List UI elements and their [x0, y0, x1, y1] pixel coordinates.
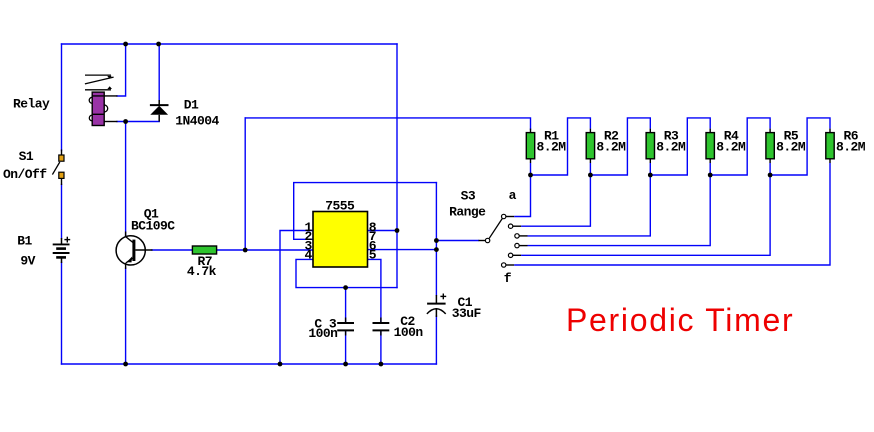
switch S1 [52, 150, 64, 186]
svg-text:33uF: 33uF [452, 306, 482, 321]
relay contact armature [85, 77, 114, 84]
svg-text:f: f [504, 271, 512, 286]
switch S3 pole [479, 219, 503, 243]
switch S3 contact d [515, 175, 710, 248]
wire C3 bottom to ground [345, 331, 347, 364]
node Q1 emitter on ground [123, 362, 128, 367]
svg-text:Periodic Timer: Periodic Timer [566, 302, 794, 338]
svg-text:D1: D1 [184, 98, 199, 113]
svg-text:100n: 100n [308, 326, 338, 341]
wire ground rail [62, 363, 437, 365]
capacitor C3 [337, 318, 354, 336]
svg-text:1N4004: 1N4004 [175, 114, 219, 129]
svg-text:8.2M: 8.2M [537, 139, 567, 154]
svg-text:On/Off: On/Off [3, 167, 47, 182]
node pin6 on threshold net [434, 247, 439, 252]
svg-text:S1: S1 [19, 149, 34, 164]
wire left rail mid (S1 to B1) [61, 185, 63, 239]
switch S3 contact e [508, 175, 770, 258]
capacitor C1 electrolytic [427, 294, 446, 318]
svg-text:8.2M: 8.2M [836, 139, 866, 154]
wire C2 bottom to ground [380, 331, 382, 364]
node pin1 on ground [278, 362, 283, 367]
switch S3 contact c [515, 175, 651, 238]
switch S3 contact a [502, 175, 531, 219]
wire VCC riser right [396, 44, 398, 288]
svg-text:a: a [509, 188, 517, 203]
wire C3 top to pin4 net [345, 288, 347, 323]
relay contact fixed line upper [85, 75, 112, 79]
capacitor C2 [373, 318, 390, 336]
node relay/D1/Q1 collector [123, 119, 128, 124]
resistor R1 [526, 118, 590, 178]
svg-text:5: 5 [369, 248, 377, 263]
node C3 on ground [343, 362, 348, 367]
transistor Q1 [116, 232, 152, 270]
wire R7 to pin 3 [217, 249, 313, 251]
relay coil [89, 92, 117, 125]
wire C1 bottom to ground [435, 316, 437, 364]
svg-text:BC109C: BC109C [131, 219, 175, 234]
node S3 pole on threshold net [434, 238, 439, 243]
wire left rail lower (B1- to ground) [61, 263, 63, 365]
wire VCC top rail [62, 43, 398, 45]
wire Q1 base to R7 [152, 249, 192, 251]
svg-text:9V: 9V [20, 254, 35, 269]
svg-text:8.2M: 8.2M [716, 139, 746, 154]
wire D1 cathode to VCC [158, 44, 160, 101]
wire feedback horizontal to R1 top [245, 118, 530, 129]
wire Q1 collector [125, 122, 127, 237]
resistor R3 [646, 118, 710, 178]
svg-text:Range: Range [449, 205, 486, 220]
op-amp U1 7555 IC body [313, 212, 368, 268]
svg-text:8.2M: 8.2M [656, 139, 686, 154]
svg-text:B1: B1 [17, 234, 32, 249]
svg-text:8.2M: 8.2M [596, 139, 626, 154]
resistor R5 [766, 118, 830, 178]
node R7/pin3/feedback [243, 248, 248, 253]
node D1 top on VCC [156, 42, 161, 47]
wire pin 8 to VCC riser [368, 230, 398, 232]
wire relay coil bottom to D1 anode [117, 121, 159, 123]
node C2 on ground [379, 362, 384, 367]
wire pin 6 to threshold net [368, 249, 437, 251]
wire threshold net vertical to C1 [435, 183, 437, 295]
svg-text:7555: 7555 [325, 198, 355, 213]
resistor R4 [706, 118, 770, 178]
relay contact fixed line lower [85, 86, 112, 90]
switch S3 contact b [508, 175, 590, 228]
wire feedback riser node A [244, 118, 246, 250]
wire relay coil top to VCC [117, 44, 126, 96]
resistor R2 [586, 118, 650, 178]
node C3 on pin4 net [343, 285, 348, 290]
svg-text:4.7k: 4.7k [187, 264, 217, 279]
svg-text:8.2M: 8.2M [776, 139, 806, 154]
svg-text:S3: S3 [461, 188, 476, 203]
resistor R7 [192, 246, 216, 254]
wire Q1 emitter to ground [125, 268, 127, 364]
battery B1 [53, 237, 70, 263]
resistor R6 [826, 129, 834, 163]
wire pin 4 under IC to VCC riser [296, 259, 397, 287]
svg-text:4: 4 [305, 248, 313, 263]
node pin8 on VCC riser [395, 228, 400, 233]
wire pin 1 to ground [280, 231, 313, 365]
switch S3 contact f [502, 163, 831, 267]
wire left rail upper (B1+ to top) [61, 44, 63, 151]
svg-text:100n: 100n [394, 325, 424, 340]
wire pin 2 over IC to threshold net [294, 183, 437, 240]
diode D1 [150, 100, 169, 122]
node relay top on VCC [123, 42, 128, 47]
wire pin 5 to C2 [368, 259, 381, 322]
wire S3 pole to threshold net [436, 240, 478, 242]
svg-text:Relay: Relay [13, 96, 50, 111]
